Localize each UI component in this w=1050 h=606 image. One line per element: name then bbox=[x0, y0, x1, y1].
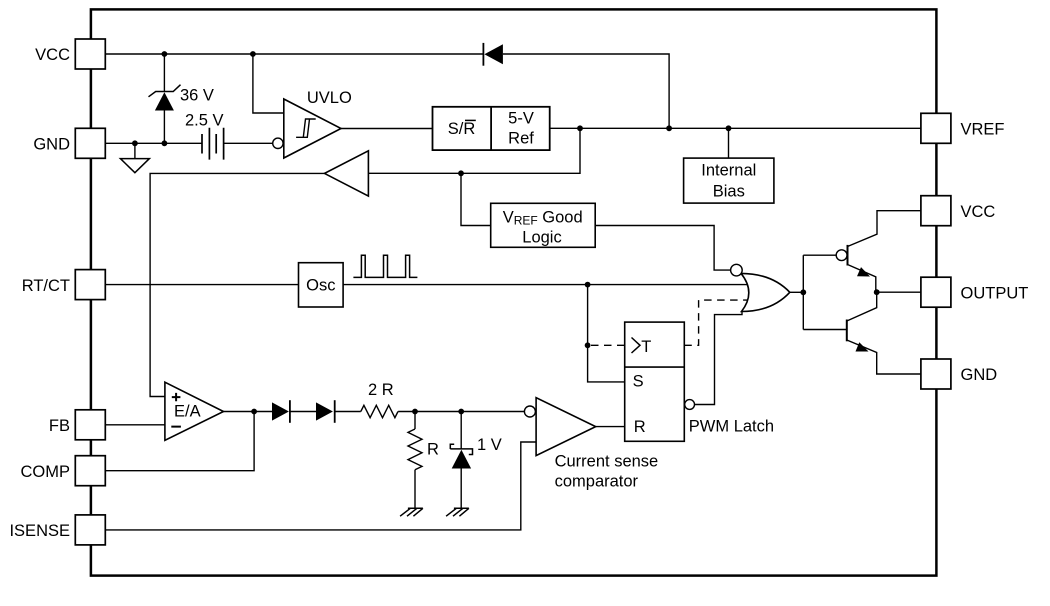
svg-text:Bias: Bias bbox=[713, 183, 745, 201]
svg-text:GND: GND bbox=[961, 366, 998, 384]
svg-text:2.5 V: 2.5 V bbox=[185, 112, 224, 130]
svg-text:5-V: 5-V bbox=[508, 109, 534, 127]
svg-text:Current sense: Current sense bbox=[555, 452, 659, 470]
svg-text:RT/CT: RT/CT bbox=[22, 277, 70, 295]
svg-text:Ref: Ref bbox=[508, 129, 534, 147]
svg-text:R: R bbox=[634, 418, 646, 436]
svg-text:2 R: 2 R bbox=[368, 381, 394, 399]
svg-text:R: R bbox=[427, 441, 439, 459]
svg-text:PWM Latch: PWM Latch bbox=[689, 417, 774, 435]
svg-text:1 V: 1 V bbox=[477, 436, 502, 454]
svg-text:Internal: Internal bbox=[701, 162, 756, 180]
svg-text:T: T bbox=[641, 338, 651, 356]
svg-text:GND: GND bbox=[33, 136, 70, 154]
svg-text:comparator: comparator bbox=[555, 472, 639, 490]
svg-text:VCC: VCC bbox=[961, 203, 996, 221]
svg-text:Osc: Osc bbox=[306, 277, 335, 295]
svg-text:COMP: COMP bbox=[21, 463, 71, 481]
svg-text:FB: FB bbox=[49, 417, 70, 435]
svg-text:E/A: E/A bbox=[174, 403, 201, 421]
svg-text:UVLO: UVLO bbox=[307, 89, 352, 107]
svg-text:VCC: VCC bbox=[35, 46, 70, 64]
svg-text:VREF: VREF bbox=[961, 121, 1005, 139]
svg-text:36 V: 36 V bbox=[180, 87, 214, 105]
svg-text:S/R: S/R bbox=[448, 120, 476, 138]
svg-text:OUTPUT: OUTPUT bbox=[961, 284, 1029, 302]
svg-text:ISENSE: ISENSE bbox=[9, 522, 70, 540]
svg-text:Logic: Logic bbox=[522, 229, 561, 247]
svg-text:S: S bbox=[633, 373, 644, 391]
